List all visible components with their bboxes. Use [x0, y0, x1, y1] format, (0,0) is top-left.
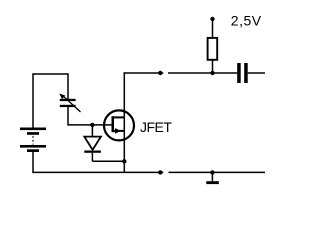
wire: resistor bottom to top rail [212, 61, 214, 74]
wire: drain vertical through JFET down to bottom rail [123, 72, 125, 172]
wire: top rail right segment [168, 72, 237, 74]
ground bar [206, 181, 219, 184]
transistor JFET source lead [113, 130, 125, 132]
resistor R1 [208, 38, 218, 60]
node on bottom rail [158, 170, 162, 174]
variable capacitor arrow [63, 96, 81, 112]
transistor JFET source arrow [115, 128, 121, 134]
wire: top rail left segment [124, 72, 164, 74]
wire: variable capacitor to gate wire [68, 107, 113, 125]
wire: cathode stub [91, 153, 93, 162]
capacitor C1 left plate [237, 63, 241, 83]
transistor JFET channel bar [112, 116, 115, 132]
battery B1 long plate 2 [20, 145, 46, 148]
node: resistor junction on top rail [210, 71, 214, 75]
battery B1 dotted middle [32, 136, 34, 144]
node: ground junction [210, 170, 214, 174]
diode D1 triangle [84, 137, 101, 150]
node: source junction [122, 159, 126, 163]
transistor JFET body circle [104, 110, 134, 140]
wire: capacitor to output [248, 72, 265, 74]
node: 2,5V supply terminal [210, 17, 214, 21]
battery B1 short plate 1 [27, 132, 39, 135]
wire: left loop top (battery top up, over, down to variable capacitor) [33, 74, 68, 128]
wire: bottom rail right segment [169, 171, 266, 173]
diode D1 cathode bar [84, 151, 101, 153]
variable capacitor top plate [60, 99, 76, 101]
wire: battery bottom to bottom rail left segment [33, 152, 163, 173]
capacitor C1 right plate [244, 63, 248, 83]
battery B1 short plate 2 [27, 149, 39, 152]
node: diode junction on gate wire [90, 123, 94, 127]
battery B1 long plate 1 [20, 128, 46, 131]
svg-text:JFET: JFET [140, 119, 172, 135]
transistor JFET drain lead [113, 116, 125, 118]
wire: anode stub [91, 125, 93, 137]
wire: diode to source rail jog [92, 160, 124, 162]
wire: terminal to resistor top [212, 19, 214, 38]
ground stub [211, 172, 213, 181]
svg-text:2,5V: 2,5V [231, 13, 262, 29]
node on top rail [158, 71, 162, 75]
variable capacitor bottom plate [60, 105, 76, 107]
